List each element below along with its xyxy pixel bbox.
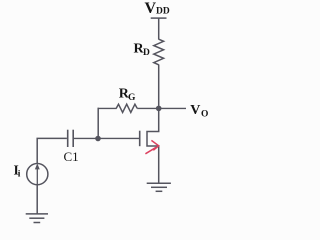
resistor RG: [116, 104, 137, 112]
wire RG left corner down to gate node: [97, 108, 99, 139]
node gate junction dot: [95, 136, 101, 142]
svg-text:V: V: [145, 0, 157, 17]
transistor Q1 gate bar: [139, 131, 141, 147]
resistor RD: [154, 39, 164, 65]
wire RG right lead to drain node: [137, 107, 159, 109]
wire capacitor to gate node: [74, 137, 98, 139]
wire output to VO: [159, 107, 186, 109]
current source Ii circle: [27, 164, 48, 185]
wire current source to ground: [36, 185, 38, 214]
label VDD: [145, 0, 170, 17]
wire input corner to capacitor: [37, 138, 67, 163]
wire RD bottom to drain node: [158, 65, 160, 110]
svg-text:V: V: [190, 103, 200, 118]
svg-text:i: i: [18, 170, 21, 180]
svg-text:C1: C1: [64, 149, 79, 164]
ground (right, source): [147, 183, 171, 191]
svg-text:O: O: [201, 109, 208, 119]
label VO: [190, 103, 208, 119]
label Ii: [14, 162, 21, 179]
wire RG left lead: [98, 107, 117, 109]
current source Ii arrow: [36, 165, 39, 185]
label RG: [119, 87, 136, 104]
label RD: [134, 42, 151, 59]
wire gate node to gate bar: [98, 137, 139, 139]
capacitor C1 left plate: [67, 130, 69, 147]
power rail VDD bar: [151, 17, 167, 19]
capacitor C1 right plate: [72, 130, 74, 147]
svg-text:DD: DD: [156, 7, 170, 17]
svg-text:D: D: [143, 48, 150, 58]
svg-text:G: G: [128, 93, 136, 103]
wire VDD bar to RD top: [158, 18, 160, 39]
transistor Q1 source arrow (red): [145, 140, 158, 153]
ground (left, input): [26, 214, 48, 223]
node drain junction dot: [156, 106, 162, 112]
transistor Q1 channel with drain and source bends: [147, 108, 159, 182]
